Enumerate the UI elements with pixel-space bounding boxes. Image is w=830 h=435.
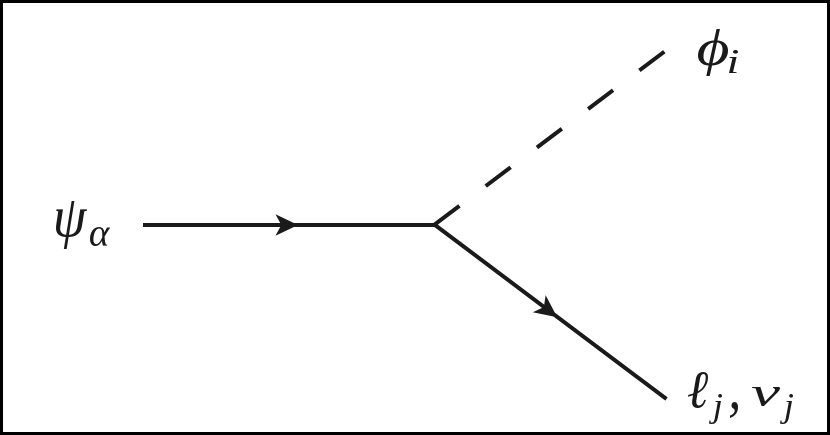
wire: incoming fermion line (psi) [143, 223, 436, 227]
arrow on outgoing lepton line [533, 295, 564, 326]
wire: outgoing lepton line [435, 225, 667, 399]
label nu (neutrino) [752, 387, 780, 406]
label subscript j (nu) [780, 394, 793, 424]
label psi (incoming fermion) [56, 201, 87, 249]
label comma [730, 402, 738, 418]
label phi (scalar) [698, 29, 728, 76]
label subscript j (ell) [709, 394, 722, 424]
wire: dashed scalar line (phi) [435, 52, 665, 225]
label subscript i [729, 50, 738, 73]
label ell (charged lepton) [688, 372, 708, 408]
label subscript alpha [90, 227, 110, 246]
arrow on incoming fermion line [276, 214, 299, 235]
